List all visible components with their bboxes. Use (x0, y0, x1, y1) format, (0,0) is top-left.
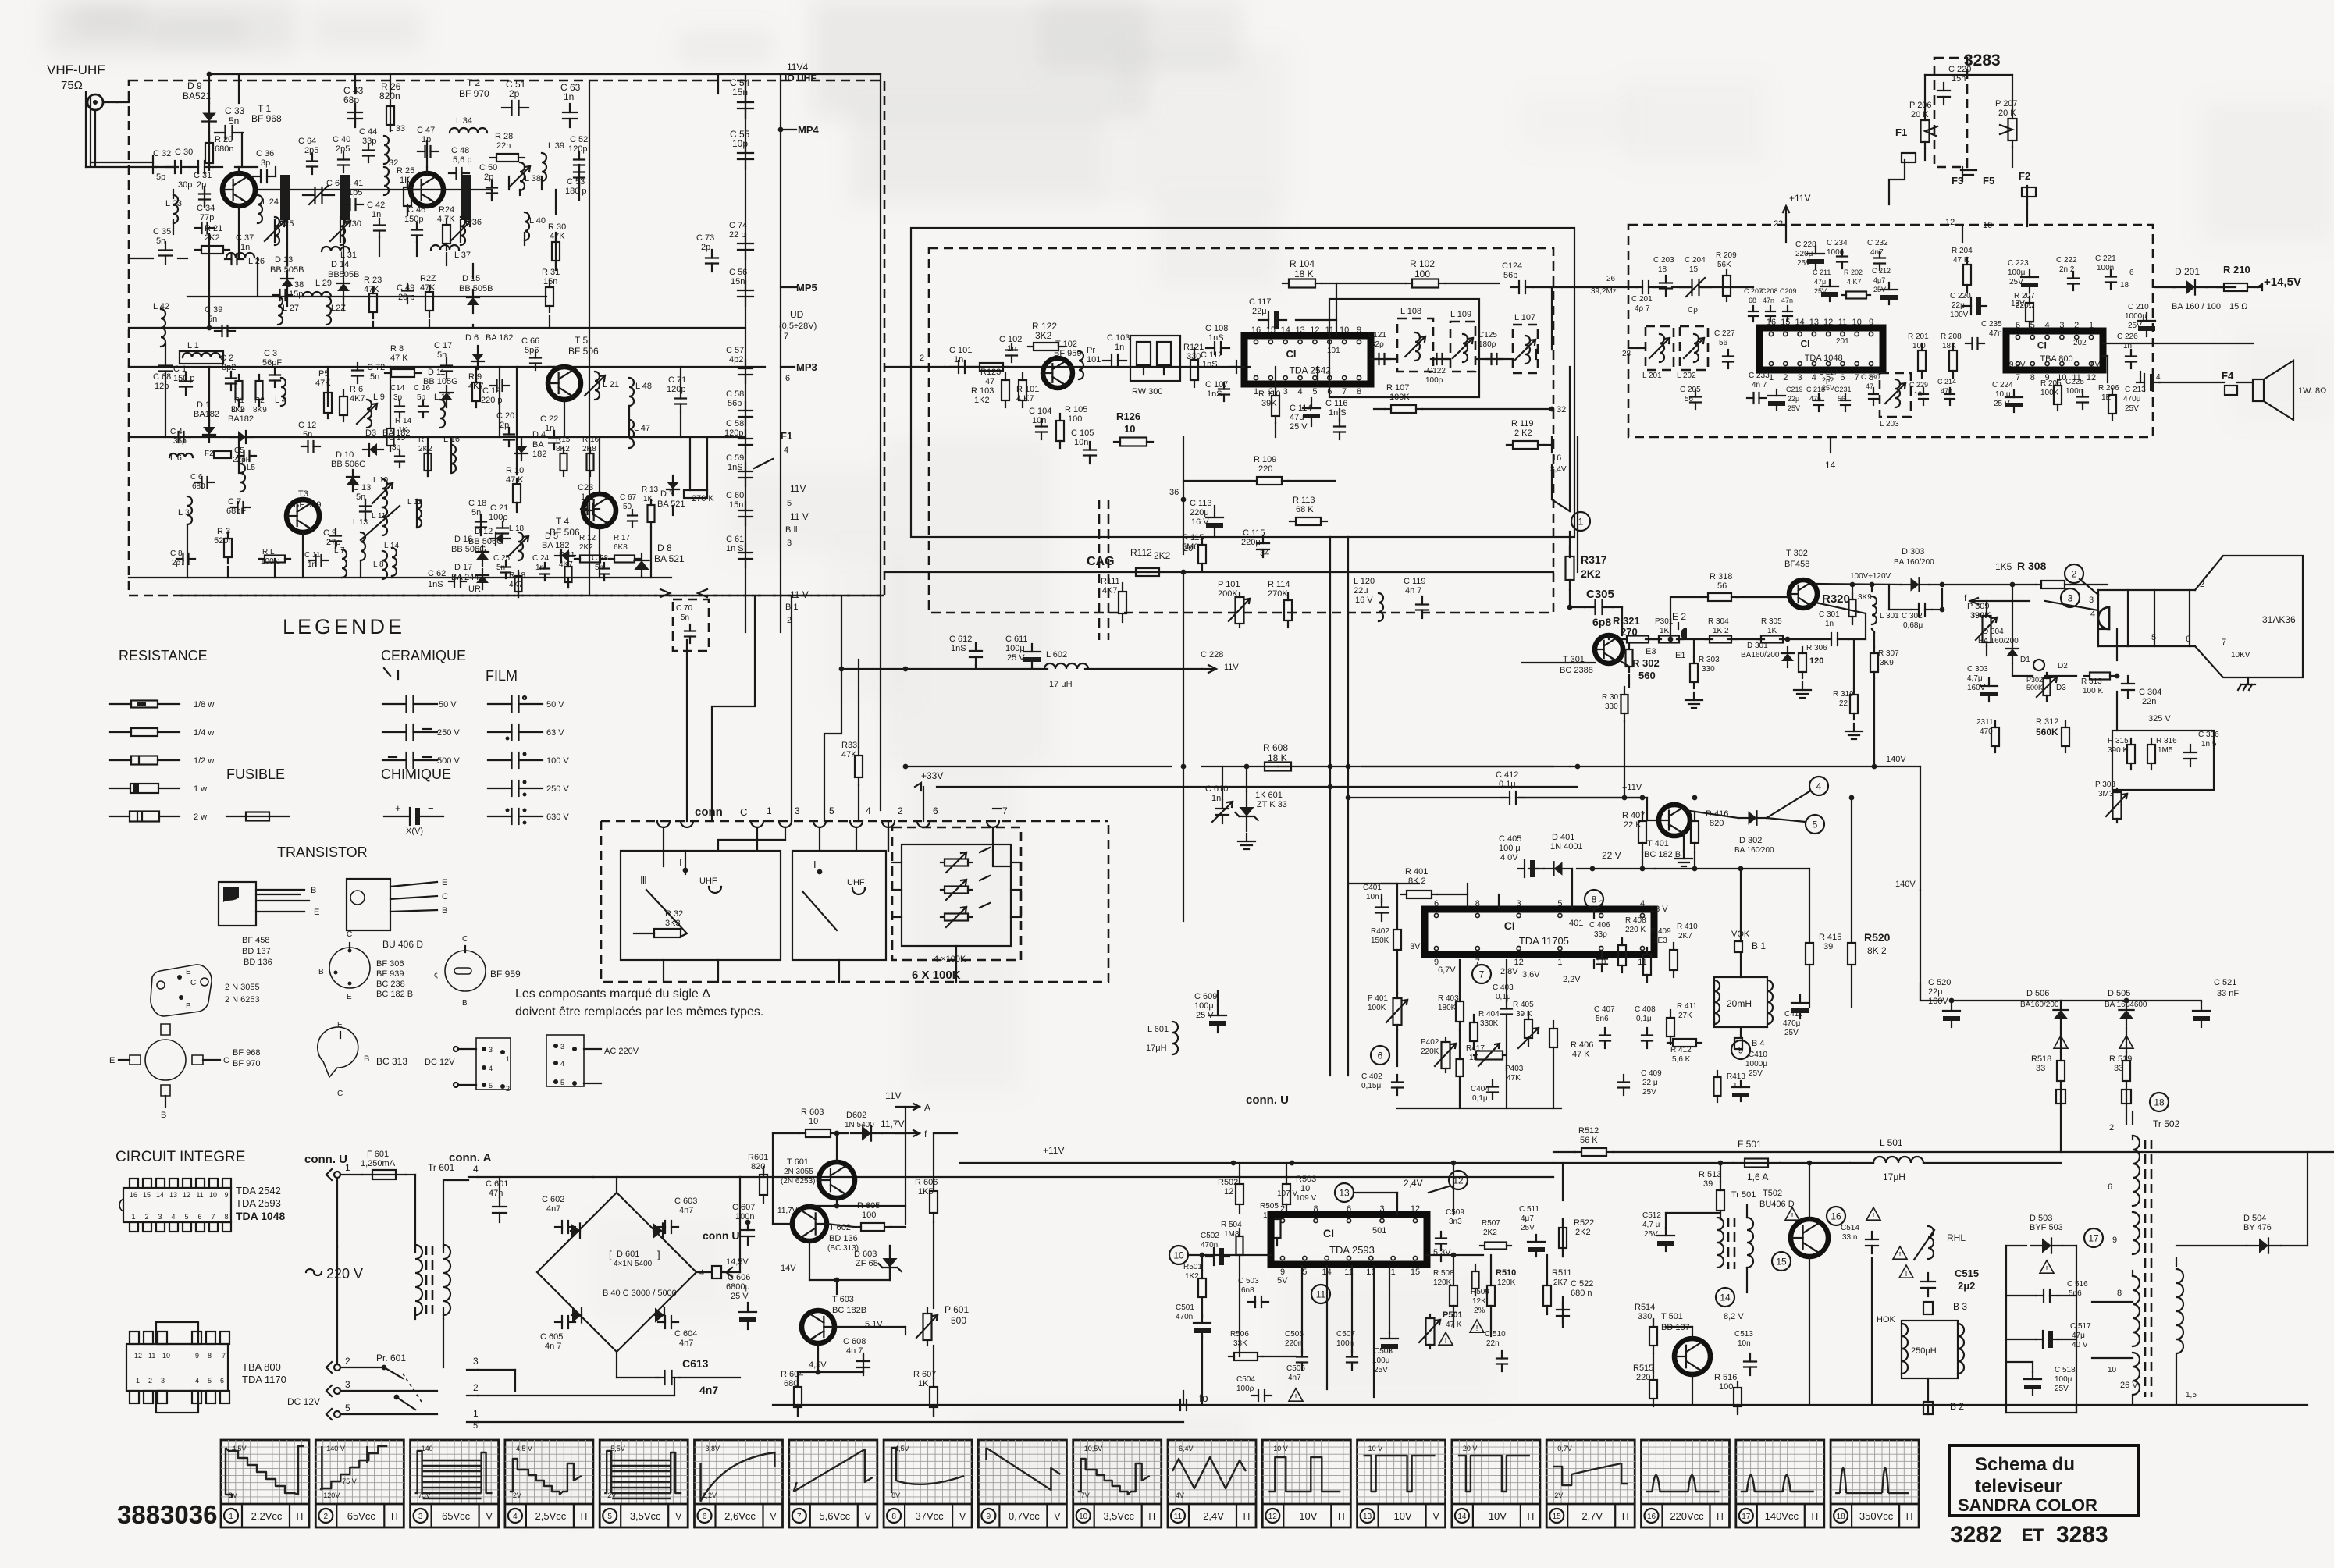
svg-text:CERAMIQUE: CERAMIQUE (381, 648, 466, 663)
diode D505 (2105, 989, 2147, 1049)
resistor R307 (1870, 629, 1899, 769)
svg-text:11: 11 (1316, 1289, 1326, 1300)
legend resistor 1/8w (109, 700, 214, 709)
svg-text:120V: 120V (323, 1492, 340, 1499)
capacitor C221 (2095, 254, 2116, 289)
svg-text:P501: P501 (1443, 1310, 1463, 1320)
svg-text:47K: 47K (315, 379, 331, 388)
capacitor C507 (1336, 1330, 1357, 1370)
svg-text:1n: 1n (545, 424, 554, 433)
diode D303 (1894, 547, 1934, 592)
resistor R511 (1543, 1268, 1571, 1314)
svg-text:6,7V: 6,7V (1438, 965, 1456, 975)
svg-text:C209: C209 (1780, 287, 1797, 295)
svg-text:7: 7 (2016, 373, 2020, 382)
svg-text:C 402: C 402 (1361, 1072, 1382, 1081)
svg-text:TDA 1048: TDA 1048 (1805, 354, 1843, 363)
svg-text:L 48: L 48 (635, 382, 652, 391)
inductor L201 (1642, 326, 1674, 380)
oscillogram 13 10V V (1357, 1440, 1446, 1527)
svg-text:39: 39 (1823, 942, 1833, 951)
svg-text:56p: 56p (1503, 271, 1517, 280)
svg-text:2 K2: 2 K2 (1514, 428, 1532, 438)
svg-text:6: 6 (220, 1377, 224, 1385)
svg-text:C 21: C 21 (490, 503, 508, 513)
svg-text:C 48: C 48 (451, 146, 469, 155)
svg-text:2: 2 (324, 1513, 329, 1521)
label 26V wire (2092, 1357, 2133, 1359)
capacitor C112 (1201, 350, 1250, 373)
svg-text:2: 2 (2109, 1123, 2114, 1132)
svg-text:13 V: 13 V (1650, 905, 1668, 914)
svg-text:C 4: C 4 (170, 428, 183, 436)
inductor L47 (629, 420, 650, 448)
legend cap 50V (382, 696, 457, 712)
capacitor C404 (1471, 1080, 1498, 1103)
resistor R31 (542, 268, 560, 312)
svg-text:R126: R126 (1116, 411, 1140, 422)
svg-text:16: 16 (1647, 1513, 1656, 1521)
svg-text:R 304: R 304 (1708, 617, 1729, 626)
wire video to 140V (1895, 766, 1920, 999)
CAG wire (884, 570, 1553, 575)
svg-text:R 23: R 23 (364, 276, 382, 285)
trimmer C65 (303, 179, 344, 204)
tuner mesh wires A (129, 74, 745, 597)
capacitor C54 (730, 77, 753, 119)
svg-text:10: 10 (1124, 423, 1135, 435)
svg-text:100: 100 (862, 1211, 876, 1220)
svg-text:12: 12 (1268, 1513, 1278, 1521)
svg-text:doivent être remplacés par les: doivent être remplacés par les mêmes typ… (515, 1005, 763, 1019)
svg-text:47: 47 (1866, 382, 1873, 390)
svg-text:+11V: +11V (1789, 193, 1810, 204)
inductor L11 (361, 506, 400, 540)
svg-text:R 307: R 307 (1878, 649, 1899, 658)
svg-text:1K2: 1K2 (1185, 1272, 1199, 1281)
inductor Pr101 (1079, 346, 1101, 379)
svg-text:DC 12V: DC 12V (287, 1396, 320, 1407)
svg-text:C 212: C 212 (1872, 267, 1891, 275)
coil RHL (1899, 1226, 1966, 1278)
transistor T302 labels (1784, 549, 1809, 569)
inductor L301 (1872, 596, 1899, 624)
resistor R7 (418, 436, 432, 476)
svg-text:E: E (337, 1021, 343, 1029)
wire tuner mid rails (129, 74, 745, 330)
svg-text:D 505: D 505 (2108, 989, 2130, 998)
svg-text:12: 12 (134, 1352, 142, 1360)
capacitor C8 (170, 549, 195, 567)
wire tuner bottom rails (129, 578, 884, 596)
svg-text:22n: 22n (1486, 1339, 1500, 1348)
capacitor C58b (724, 419, 753, 453)
svg-text:4: 4 (1298, 387, 1303, 396)
legend resistor 1/2w (109, 756, 214, 766)
svg-text:BF 939: BF 939 (376, 969, 404, 979)
resistor R13 (642, 485, 659, 528)
svg-text:Ⅲ: Ⅲ (640, 874, 647, 886)
diode D603 ZF68 (854, 1246, 902, 1280)
svg-text:T 603: T 603 (832, 1295, 854, 1304)
svg-text:!: ! (1445, 1337, 1447, 1346)
capacitor C41 (343, 179, 363, 210)
capacitor C232 (1867, 239, 1888, 270)
svg-text:C 516: C 516 (2067, 1280, 2088, 1289)
svg-text:3,8V: 3,8V (706, 1445, 720, 1452)
svg-text:4K7: 4K7 (1102, 586, 1118, 596)
svg-text:560: 560 (1638, 670, 1656, 681)
svg-text:16: 16 (1767, 318, 1776, 327)
svg-text:C 609: C 609 (1194, 992, 1217, 1001)
svg-text:C 412: C 412 (1496, 770, 1518, 780)
svg-text:140V: 140V (1886, 755, 1906, 764)
label 11V out (885, 1090, 930, 1113)
svg-text:C 610: C 610 (1205, 784, 1228, 794)
svg-text:22μ: 22μ (1252, 307, 1267, 316)
svg-text:15: 15 (143, 1191, 151, 1199)
svg-text:!: ! (1791, 1212, 1794, 1221)
svg-text:220K: 220K (1421, 1047, 1439, 1056)
svg-text:L 18: L 18 (509, 524, 525, 533)
capacitor C602 (542, 1195, 575, 1233)
svg-text:R520: R520 (1864, 931, 1891, 944)
resistor R401 (1401, 867, 1437, 898)
wire riser x1078 (824, 596, 841, 821)
svg-text:13: 13 (1295, 325, 1304, 335)
capacitor C55 (730, 129, 753, 169)
pin 12 10 (1945, 218, 1992, 230)
svg-text:4: 4 (699, 1268, 704, 1278)
svg-text:C 210: C 210 (2128, 303, 2149, 311)
svg-text:10: 10 (162, 1352, 170, 1360)
svg-text:L 601: L 601 (1147, 1025, 1169, 1034)
diode D9 BA521 (183, 80, 216, 131)
label 220V (306, 1266, 363, 1282)
capacitor C603 (658, 1196, 697, 1233)
svg-text:conn. U: conn. U (304, 1153, 347, 1166)
svg-text:6: 6 (2016, 321, 2020, 330)
svg-text:37Vcc: 37Vcc (916, 1510, 945, 1522)
pin 2 entry (884, 354, 945, 367)
svg-text:R 302: R 302 (1632, 657, 1660, 669)
inductor L26 (226, 253, 265, 266)
svg-text:P 401: P 401 (1368, 994, 1388, 1003)
resistor R114 (1268, 580, 1292, 628)
svg-text:L 36: L 36 (465, 218, 482, 227)
svg-text:C 47: C 47 (417, 126, 435, 135)
svg-text:3: 3 (1283, 387, 1288, 396)
svg-text:2: 2 (920, 354, 924, 363)
svg-text:BA 521: BA 521 (654, 553, 685, 564)
svg-text:3: 3 (345, 1379, 350, 1390)
diode D17 (451, 563, 489, 589)
svg-text:4: 4 (2045, 321, 2050, 330)
capacitor C42 (367, 201, 385, 237)
svg-text:7: 7 (1479, 969, 1485, 980)
IC CI501 TDA2593 (1271, 1204, 1427, 1277)
svg-text:220: 220 (1636, 1373, 1650, 1382)
svg-text:2,4V: 2,4V (1404, 1178, 1423, 1189)
resistor R519 (2109, 1052, 2132, 1104)
svg-text:FUSIBLE: FUSIBLE (226, 766, 285, 782)
svg-text:C14: C14 (390, 384, 405, 393)
svg-text:100ρ: 100ρ (1236, 1385, 1254, 1393)
svg-text:3: 3 (161, 1377, 165, 1385)
oscillogram 8 37Vcc V (884, 1440, 972, 1527)
B3 terminal (1923, 1301, 1967, 1314)
svg-text:15: 15 (1689, 265, 1699, 274)
svg-text:BC 238: BC 238 (376, 980, 405, 989)
svg-text:11: 11 (196, 1191, 203, 1199)
svg-text:5,6Vcc: 5,6Vcc (819, 1510, 850, 1522)
resistor R24 (437, 205, 455, 250)
capacitor C509 (1436, 1208, 1464, 1250)
resistor R306 (1794, 644, 1827, 698)
svg-text:1: 1 (1578, 516, 1584, 527)
svg-text:V: V (1054, 1511, 1060, 1522)
svg-text:R 404: R 404 (1478, 1010, 1500, 1019)
capacitor C403 (1493, 983, 1514, 1022)
wire T301 base (1522, 662, 1595, 663)
svg-text:7: 7 (2222, 638, 2226, 647)
power wires (740, 1107, 1183, 1416)
svg-text:470μ: 470μ (1783, 1019, 1801, 1028)
labels around CI401 (1438, 965, 1581, 984)
svg-text:MP3: MP3 (796, 361, 817, 373)
svg-text:4: 4 (866, 805, 871, 816)
legend film 50V (488, 696, 564, 712)
svg-text:Tr 502: Tr 502 (2153, 1118, 2180, 1129)
svg-text:16: 16 (130, 1191, 137, 1199)
svg-text:4n7: 4n7 (679, 1339, 693, 1348)
svg-text:680 n: 680 n (1571, 1289, 1592, 1298)
svg-text:15n: 15n (729, 500, 743, 510)
wire +11V rail video (1519, 795, 1697, 820)
svg-text:28: 28 (1622, 350, 1631, 358)
transistor T301 (1595, 635, 1623, 663)
svg-text:75Ω: 75Ω (61, 79, 83, 92)
svg-text:1: 1 (506, 1055, 510, 1063)
video signal chain wires (1609, 582, 2108, 676)
svg-text:3,4V: 3,4V (1550, 465, 1567, 474)
capacitor C16 (414, 384, 431, 418)
sheet number 3282 ET 3283 (1950, 1522, 2108, 1548)
svg-text:C 520: C 520 (1928, 978, 1951, 987)
capacitor C104 (1029, 407, 1051, 439)
label 4,5V (809, 1360, 827, 1370)
svg-text:D2: D2 (2058, 662, 2068, 670)
inductor L23 (165, 195, 182, 223)
inductor L14 (384, 542, 400, 576)
svg-text:0,1μ: 0,1μ (1499, 780, 1516, 789)
svg-text:BB 506G: BB 506G (451, 545, 486, 554)
svg-text:FILM: FILM (486, 668, 518, 684)
svg-text:C 228: C 228 (1201, 650, 1223, 660)
svg-text:18: 18 (2120, 281, 2129, 290)
dashed box C220 (1934, 58, 1967, 167)
capacitor C223 (2008, 259, 2038, 292)
svg-text:120: 120 (1809, 656, 1823, 666)
HOK coil box (1877, 1315, 1964, 1378)
svg-text:B: B (311, 886, 316, 895)
svg-text:14: 14 (156, 1191, 164, 1199)
resistor R407 (1622, 811, 1646, 871)
wire y380 rail (187, 296, 546, 297)
svg-text:25V: 25V (1521, 1224, 1535, 1232)
capacitor C521 (2193, 978, 2239, 1027)
svg-text:C 7: C 7 (228, 497, 241, 507)
svg-text:C505: C505 (1285, 1330, 1304, 1339)
capacitor C305 (1567, 588, 1614, 628)
svg-text:MP5: MP5 (796, 282, 817, 293)
inductor L32 (384, 158, 398, 195)
svg-text:1/2 w: 1/2 w (194, 756, 214, 766)
svg-text:C 213: C 213 (2125, 386, 2146, 394)
IF lower dashed partition (1099, 500, 1108, 640)
pot P501 (1419, 1310, 1463, 1349)
inductor L15 (434, 393, 450, 428)
svg-text:1 w: 1 w (194, 784, 207, 794)
transformer Tr502 (2092, 1118, 2197, 1405)
capacitor C402 (1361, 1072, 1403, 1095)
svg-text:T 601: T 601 (787, 1157, 809, 1167)
transistor T102 labels (1054, 340, 1081, 358)
svg-text:100: 100 (1719, 1382, 1733, 1392)
wire column x2021 (1577, 437, 1578, 572)
capacitor C406 (1589, 921, 1610, 972)
svg-text:4n7: 4n7 (699, 1384, 718, 1396)
legend fuse (226, 812, 289, 821)
svg-text:C 25: C 25 (493, 554, 511, 563)
svg-text:R 104: R 104 (1290, 258, 1315, 269)
capacitor C72 (352, 363, 385, 383)
svg-text:4: 4 (171, 1213, 175, 1221)
svg-text:2K2: 2K2 (418, 445, 432, 453)
svg-text:25 V: 25 V (731, 1292, 749, 1301)
svg-text:10: 10 (809, 1117, 818, 1126)
legend FILM (486, 668, 518, 684)
legend CHIMIQUE (381, 766, 451, 782)
svg-text:3,5Vcc: 3,5Vcc (1103, 1510, 1134, 1522)
svg-text:R 11: R 11 (559, 551, 575, 560)
svg-text:0,7V: 0,7V (1557, 1445, 1572, 1452)
svg-text:1: 1 (767, 805, 772, 816)
capacitor C229 (1909, 381, 1928, 405)
resistor R10 (506, 466, 524, 508)
svg-text:12p: 12p (155, 382, 169, 391)
capacitor C11 (304, 551, 328, 569)
svg-text:L 107: L 107 (1514, 313, 1535, 322)
resistor R205 (2040, 379, 2062, 411)
label 3283 (1964, 52, 2001, 69)
svg-text:−: − (428, 802, 434, 814)
svg-text:C 53: C 53 (567, 177, 585, 187)
svg-text:L 108: L 108 (1400, 307, 1421, 316)
transistor T502 (1791, 1219, 1828, 1257)
svg-text:LEGENDE: LEGENDE (283, 615, 405, 638)
svg-text:televiseur: televiseur (1975, 1476, 2062, 1497)
capacitor C511 (1519, 1205, 1545, 1257)
svg-text:4n7: 4n7 (546, 1204, 560, 1214)
svg-text:L 42: L 42 (153, 302, 169, 311)
svg-text:C 41: C 41 (345, 179, 363, 188)
svg-text:5: 5 (184, 1213, 188, 1221)
capacitor C58a (726, 389, 753, 425)
svg-text:C509: C509 (1446, 1208, 1464, 1217)
svg-text:L 37: L 37 (454, 251, 471, 260)
svg-text:R 107: R 107 (1386, 383, 1409, 393)
svg-text:R123: R123 (980, 368, 1001, 377)
svg-text:R 6: R 6 (350, 385, 363, 394)
conn A label (449, 1151, 492, 1164)
svg-text:H: H (581, 1511, 588, 1522)
capacitor C515 (1893, 1246, 1979, 1296)
circled 8 (1585, 890, 1603, 908)
resistor R202 (1842, 268, 1870, 299)
svg-text:47μ: 47μ (1814, 278, 1826, 286)
svg-text:R507: R507 (1482, 1219, 1500, 1228)
svg-text:V: V (486, 1511, 493, 1522)
svg-text:C 306: C 306 (2198, 731, 2219, 739)
svg-text:C 603: C 603 (674, 1196, 697, 1206)
svg-text:100 K: 100 K (2083, 687, 2103, 695)
capacitor C101 (949, 346, 973, 373)
pin 22 (1774, 219, 1783, 229)
capacitor C36 (252, 149, 276, 183)
svg-text:8: 8 (1357, 387, 1361, 396)
svg-text:H: H (1148, 1511, 1155, 1522)
capacitor C204 Cp (1680, 256, 1711, 315)
svg-text:9: 9 (987, 1513, 991, 1521)
power rails right (478, 1177, 1553, 1422)
svg-text:4 K7: 4 K7 (1847, 278, 1862, 286)
resistor R413 (1714, 1071, 1746, 1102)
svg-text:R 409: R 409 (1650, 927, 1671, 936)
capacitor C218 (1806, 386, 1825, 411)
svg-text:R 17: R 17 (614, 534, 631, 542)
svg-text:180 p: 180 p (565, 187, 587, 196)
svg-text:4: 4 (2156, 373, 2161, 382)
svg-text:2V: 2V (607, 1492, 616, 1499)
svg-text:DC 12V: DC 12V (425, 1058, 455, 1067)
IF filter solid box (1329, 299, 1479, 397)
svg-text:1: 1 (229, 1513, 233, 1521)
svg-text:CHIMIQUE: CHIMIQUE (381, 766, 451, 782)
resistor R301 (1602, 687, 1628, 798)
conn C terminals (657, 805, 1008, 827)
capacitor C219 (1768, 386, 1803, 412)
svg-text:1,2V: 1,2V (703, 1492, 717, 1499)
svg-text:5: 5 (345, 1403, 350, 1413)
resistor R3 (214, 527, 233, 564)
svg-text:25V: 25V (1749, 1069, 1763, 1078)
svg-text:3: 3 (2059, 321, 2064, 330)
svg-text:R 105: R 105 (1065, 405, 1087, 414)
svg-text:2: 2 (473, 1382, 479, 1393)
resistor R119 (1507, 419, 1544, 449)
svg-text:1nS: 1nS (951, 644, 966, 653)
svg-text:C: C (442, 892, 448, 901)
oscillogram 2 65Vcc H (315, 1440, 404, 1527)
svg-text:R 30: R 30 (548, 222, 566, 232)
svg-text:C 115: C 115 (1243, 528, 1265, 538)
svg-text:BD 137: BD 137 (242, 947, 271, 956)
svg-text:P 101: P 101 (1218, 580, 1240, 589)
capacitor C105 (1071, 428, 1096, 464)
resistor R318 (1702, 572, 1737, 601)
svg-text:]: ] (657, 1249, 660, 1260)
